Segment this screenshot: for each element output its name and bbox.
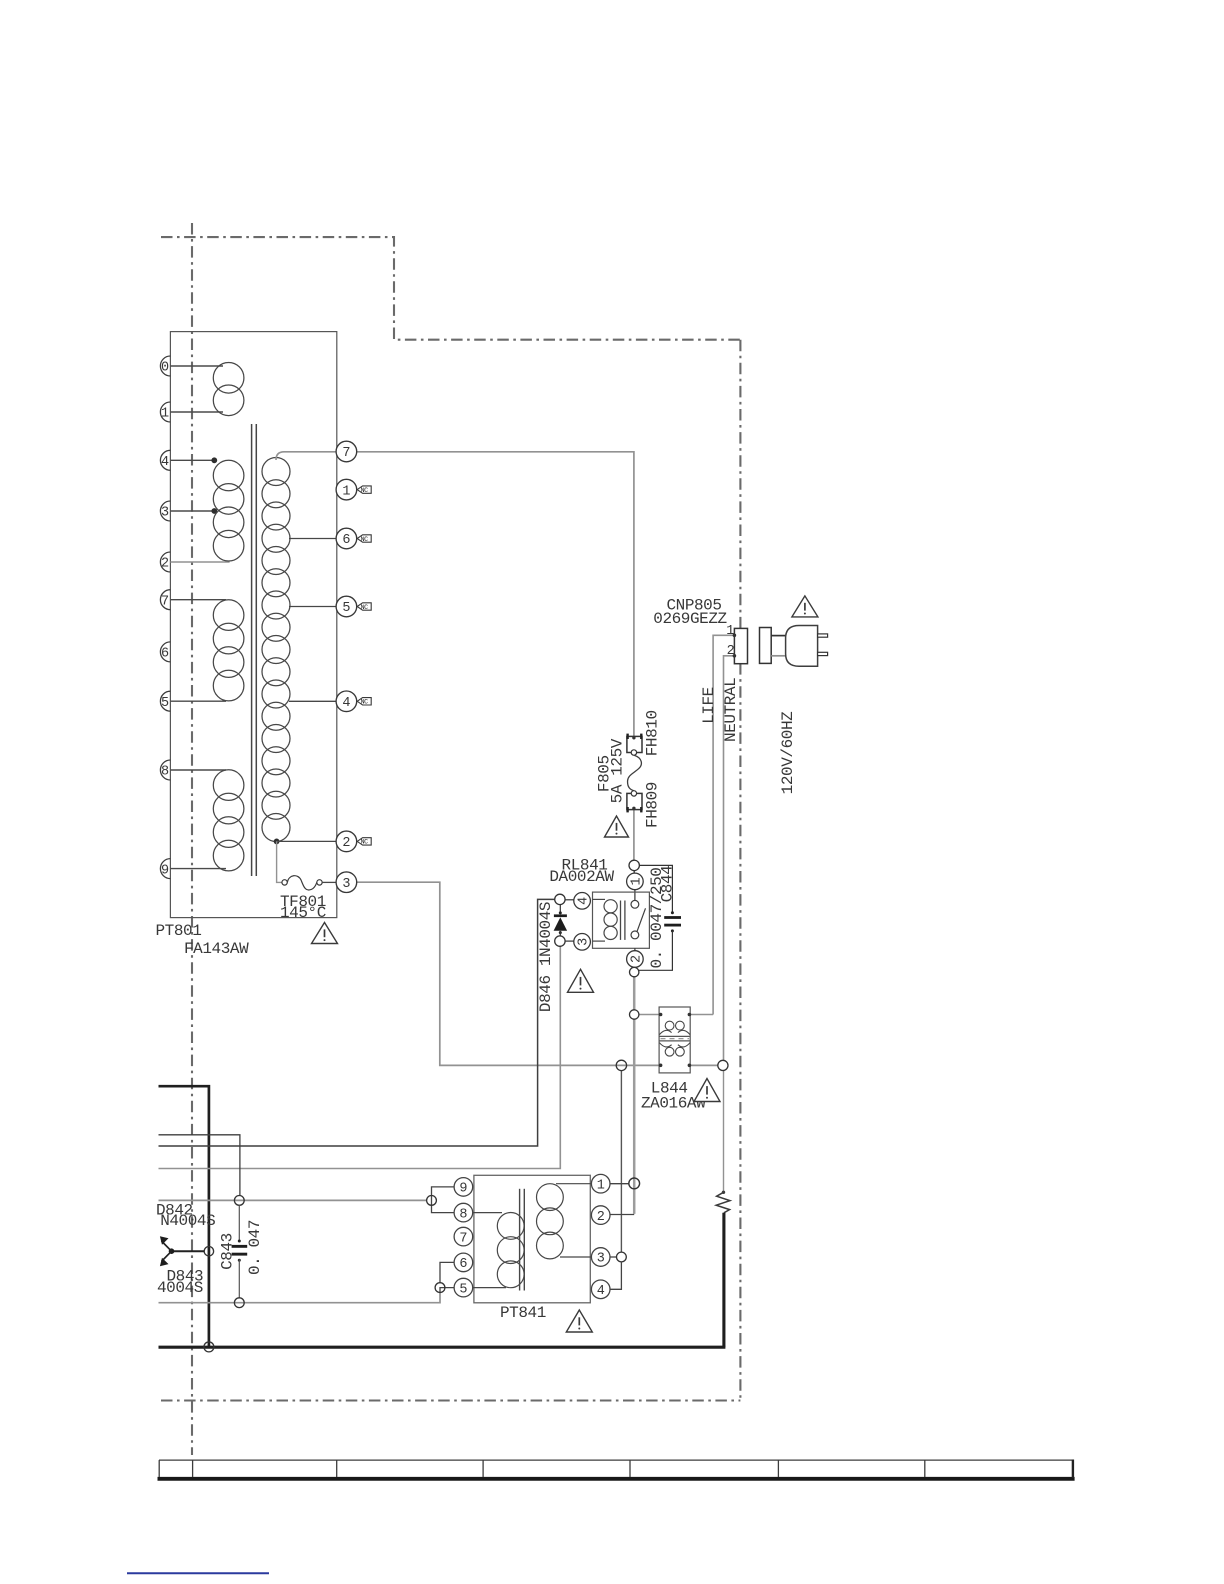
svg-text:1: 1 [726,624,734,639]
svg-text:FA143AW: FA143AW [184,940,249,958]
wire PT841 pin2 to junction [610,1214,634,1216]
label 4004S (cropped) [157,1279,203,1297]
svg-text:5A 125V: 5A 125V [608,738,626,803]
wire PT841 pins 3-4 up to L844 bottom rail [620,1071,622,1253]
junction dot PT801 pin4 tap [211,457,217,463]
label F805 [596,755,614,792]
label 120V/60HZ [779,711,797,794]
winding PT801 primary 7-5 [213,600,244,701]
wire L844 top-right pin to LIFE line [689,1014,713,1016]
label C843 [218,1233,236,1270]
plug prong 1 [818,634,828,637]
plug prong 2 [818,652,828,655]
wire diode pair to bus node [169,1248,205,1254]
diode D842 1N4004S [160,1236,172,1251]
label 1N4004S (cropped) [160,1212,215,1230]
mains plug socket [760,628,772,664]
svg-text:4: 4 [161,455,169,470]
PT801 primary pin 4 bump [160,450,170,470]
transformer PT801 outline box [170,332,336,918]
spark gap zigzag on neutral return [716,1191,730,1213]
revision table divider 4 [482,1460,484,1477]
PT801 secondary pin 3 [336,872,357,893]
revision table divider 5 [629,1460,631,1477]
svg-text:PT801: PT801 [156,922,202,940]
PT841 primary pin 9 [454,1178,473,1197]
revision table top rule [159,1459,1073,1461]
label RL841 [562,857,608,875]
wire PT801 primary pin 5 lead [170,700,226,702]
label CNP805 [666,597,721,615]
wire C843 bottom rail to PT841 pins 6-5 [159,1292,441,1302]
insulation boundary dash-dot bottom segment [161,1399,740,1401]
junction node below pin2 [630,967,639,976]
wire secondary bottom down to thermal fuse TF801 [277,841,282,882]
svg-text:2: 2 [597,1210,605,1225]
connector CNP805 body [734,628,747,663]
fuse holder FH809 [627,791,642,813]
PT841 secondary pin 4 [591,1280,610,1299]
wire PT801 secondary top to pin 7 [276,452,336,460]
PT841 core [520,1189,525,1291]
svg-text:2: 2 [342,836,350,851]
heavy primary return bus left L [159,1086,209,1347]
svg-text:145°C: 145°C [280,904,326,922]
svg-text:8: 8 [161,765,169,780]
svg-text:3: 3 [597,1252,605,1267]
relay RL841 pin 1 [627,873,645,890]
PT801 secondary pin 7 [336,441,357,462]
svg-text:9: 9 [459,1182,467,1197]
wire pin1 node to C844 [639,865,672,912]
diode D843 1N4004S [160,1251,172,1266]
label PT841 [500,1304,546,1322]
svg-text:DA002AW: DA002AW [549,868,614,886]
wire PT841 pin1 to junction [610,1183,629,1185]
winding PT801 secondary [262,458,290,842]
relay RL841 core [621,901,625,940]
PT801 primary pin 0 bump [160,356,170,376]
wire C843 top rail to PT841 pins 9-8 [159,1199,427,1201]
PT801 primary pin 5 bump [160,691,170,711]
svg-text:N4004S: N4004S [160,1212,215,1230]
warning triangle near mains plug [792,596,818,617]
NC tag pin 1 [357,486,371,494]
wire PT801 secondary tap to pin 6 [289,538,336,540]
wire LIFE from CNP805 pin1 [713,635,734,1014]
revision table bottom heavy rule [158,1477,1075,1481]
wire PT841 pins 9-8 link [432,1187,455,1213]
NC tag pin 5 [357,603,371,611]
relay RL841 pin 3 [574,934,592,951]
L844 bottom winding [659,1043,690,1056]
wire PT801 primary pin 0 lead [170,365,223,367]
svg-text:LIFE: LIFE [700,687,718,724]
PT841 primary pin 8 [454,1203,473,1222]
svg-text:7: 7 [342,446,350,461]
L844 top winding [659,1021,690,1034]
wire socket to plug body bottom [771,655,785,657]
revision table divider 7 [924,1460,926,1477]
PT801 primary pin 6 bump [160,642,170,662]
svg-text:9: 9 [161,863,169,878]
PT841 secondary pin 2 [591,1206,610,1225]
mains plug body [786,626,818,667]
wire PT841 pins 6-5 link [440,1262,454,1292]
svg-text:3: 3 [577,938,592,946]
svg-text:2: 2 [630,955,645,963]
junction node pins 6-5 [435,1283,445,1293]
line filter L844 box [659,1007,690,1073]
wire C844 to pin2 node [639,931,673,970]
svg-text:C844: C844 [659,866,677,903]
relay RL841 coil [593,899,618,941]
node circle left of pin3 [555,936,574,946]
PT801 primary pin 3 bump [160,501,170,521]
junction node pins 9-8 [427,1196,437,1206]
CNP805 pin 2 [727,644,737,659]
PT801 primary pin 1 bump [160,402,170,422]
relay RL841 box [593,892,650,948]
junction node PT841 pins 3-4 [617,1252,627,1262]
transformer PT841 box [474,1175,590,1303]
label FH809 [643,782,661,828]
junction node on primary bus for D842/D843 [204,1247,213,1256]
junction node L844 bottom rail / PT841 pins34 [616,1060,626,1070]
wire PT801 pin7 to fuse holder FH810 [357,452,634,737]
svg-text:NC: NC [361,839,369,846]
svg-text:0269GEZZ: 0269GEZZ [653,610,727,628]
svg-text:8: 8 [459,1207,467,1222]
wire RL841 pin3 branch to left edge [159,946,561,1168]
wire PT801 primary pin 8 lead [170,769,226,771]
label NEUTRAL [722,678,740,742]
svg-text:1: 1 [597,1178,605,1193]
NC tag pin 4 [357,698,371,706]
svg-text:1: 1 [342,484,350,499]
warning triangle near fuse F805 [605,816,629,837]
wire socket to plug body top [771,635,785,637]
wire NEUTRAL below L844 rail to spark gap [723,1070,725,1192]
label ZA016AW [641,1095,706,1113]
label D846 1N4004S [537,902,555,1012]
NC tag pin 6 [357,535,371,543]
svg-text:0: 0 [161,361,169,376]
label 0.047 [246,1220,264,1275]
warning triangle near L844 [694,1079,720,1102]
transformer PT801 core [252,424,257,876]
warning triangle near PT801 [312,923,338,944]
svg-text:FH809: FH809 [643,782,661,828]
fuse F805 5A 125V [628,755,642,791]
wire PT801 primary pin 4 lead [170,459,213,461]
diode D846 1N4004S [554,905,568,936]
PT841 primary pin 6 [454,1253,473,1272]
insulation boundary dash-dot right vertical [739,340,741,1401]
svg-text:4: 4 [342,696,350,711]
label LIFE [700,687,718,724]
PT801 secondary pin 2 [336,831,357,852]
label 0269GEZZ [653,610,727,628]
svg-text:4: 4 [597,1284,605,1299]
insulation boundary dash-dot left vertical [191,223,193,1455]
label 0.0047/250 [648,868,666,969]
capacitor C844 0.0047/250 [664,911,681,932]
svg-text:0. 047: 0. 047 [246,1220,264,1275]
label L844 [651,1080,688,1098]
capacitor C843 bottom node circle [234,1298,244,1308]
wire FH809 to RL841 pin1 [633,810,635,861]
CNP805 pin 1 [726,624,736,639]
svg-text:1: 1 [630,877,645,885]
junction node neutral / L844 bottom-right [718,1060,728,1070]
L844 core [659,1036,690,1041]
svg-text:C843: C843 [218,1233,236,1270]
wire PT841 pin4 to junction [610,1262,621,1289]
svg-text:5: 5 [161,696,169,711]
relay RL841 pin 2 [627,951,645,968]
wire PT801 primary pin 3 lead [170,510,213,512]
NC tag pin 2 [357,838,371,846]
junction dot PT801 pin3 tap [211,508,217,514]
wire PT801 primary pin 2 lead [170,561,229,563]
PT801 primary pin 8 bump [160,760,170,780]
label D843 [167,1267,204,1285]
heavy neutral return wire down to bottom bus [722,1213,725,1347]
label 5A 125V [608,738,626,803]
PT801 primary pin 2 bump [160,552,170,572]
PT801 primary pin 9 bump [160,859,170,879]
wire junction to L844 top-left pin [639,1014,661,1016]
svg-text:120V/60HZ: 120V/60HZ [779,711,797,794]
PT841 secondary winding [537,1184,592,1259]
revision table divider 1 [158,1460,160,1477]
PT841 primary pin 7 [454,1227,473,1246]
L844 pin dots [659,1013,691,1067]
junction node L844 top-left [630,1010,639,1019]
label TF801 [280,893,326,911]
label C844 [659,866,677,903]
wire RL841 pin2 down to PT841 pins 1-2 junction [633,977,636,1214]
label FH810 [643,710,661,756]
insulation boundary dash-dot top segment [161,237,740,340]
svg-text:NC: NC [361,536,369,543]
wire PT801 pin3 to L844 bottom rail [357,882,718,1065]
wire PT801 primary pin 1 lead [170,411,223,413]
capacitor C843 [232,1205,248,1298]
wire PT801 secondary tap to pin 5 [289,606,336,608]
svg-text:4: 4 [577,897,592,905]
revision table divider 6 [777,1460,779,1477]
svg-text:6: 6 [161,647,169,662]
winding PT801 primary 4-3-2 [213,460,244,561]
wire pin1 into relay [634,890,636,901]
svg-text:FH810: FH810 [643,710,661,756]
svg-text:4004S: 4004S [157,1279,203,1297]
svg-text:6: 6 [342,533,350,548]
PT801 secondary pin 5 [336,596,357,617]
heavy bottom bus wire [159,1346,726,1349]
label 145 C [280,904,326,922]
label D842 [156,1202,193,1220]
wire RL841 pin4 branch to left edge [159,899,555,1146]
wire relay box to pin2 [634,948,636,950]
thermal fuse TF801 [282,876,336,890]
PT841 primary pin 5 [454,1278,473,1297]
PT801 secondary pin 1 [336,479,357,500]
capacitor C843 top node circle [234,1196,244,1206]
label PT801 [156,922,202,940]
svg-text:2: 2 [161,557,169,572]
node circle left of pin4 [555,894,574,904]
svg-text:5: 5 [459,1282,467,1297]
PT801 primary pin 7 bump [160,590,170,610]
revision table right edge [1072,1460,1074,1479]
warning triangle near PT841 [566,1310,592,1332]
wire left edge to C843 top [159,1135,240,1196]
PT801 secondary pin 4 [336,691,357,712]
PT841 primary winding [473,1213,524,1288]
warning triangle near D846 [568,969,594,992]
svg-text:6: 6 [459,1257,467,1272]
junction node bottom bus / primary bus [204,1342,214,1352]
junction node PT841 pins 1-2 [629,1178,640,1189]
PT801 secondary pin 6 [336,528,357,549]
svg-text:5: 5 [342,601,350,616]
revision table divider 3 [336,1460,338,1477]
svg-text:NC: NC [361,604,369,611]
svg-text:7: 7 [459,1231,467,1246]
footer blue underline [127,1572,269,1574]
wire node to pin1 [633,871,635,874]
svg-text:NEUTRAL: NEUTRAL [722,678,740,742]
svg-text:2: 2 [727,644,735,659]
svg-text:PT841: PT841 [500,1304,546,1322]
winding PT801 primary 8-9 [213,770,244,871]
PT841 secondary pin 1 [591,1174,610,1193]
label FA143AW [184,940,249,958]
wire PT841 pin3 to junction node [610,1256,617,1258]
PT841 secondary pin 3 [591,1248,610,1267]
fuse holder FH810 [627,734,642,756]
junction RL841 pin1 node [629,860,639,870]
svg-text:7: 7 [161,594,169,609]
svg-text:1: 1 [161,407,169,422]
label DA002AW [549,868,614,886]
wire PT801 primary pin 7 lead [170,599,226,601]
wire PT801 secondary tap to pin 4 [289,700,336,702]
revision table divider 2 [192,1460,194,1477]
wire PT801 secondary bottom to pin 2 [277,840,337,842]
svg-text:NC: NC [361,487,369,494]
svg-text:3: 3 [342,877,350,892]
junction dot PT801 secondary bottom [274,839,280,845]
winding PT801 primary 0-1 [213,363,244,416]
svg-text:3: 3 [161,506,169,521]
wire NEUTRAL from CNP805 pin2 [724,656,735,1061]
svg-text:D846 1N4004S: D846 1N4004S [537,902,555,1012]
relay RL841 contacts and blade [631,900,646,938]
svg-text:NC: NC [361,699,369,706]
wire PT801 primary pin 9 lead [170,868,226,870]
relay RL841 pin 4 [574,893,592,910]
